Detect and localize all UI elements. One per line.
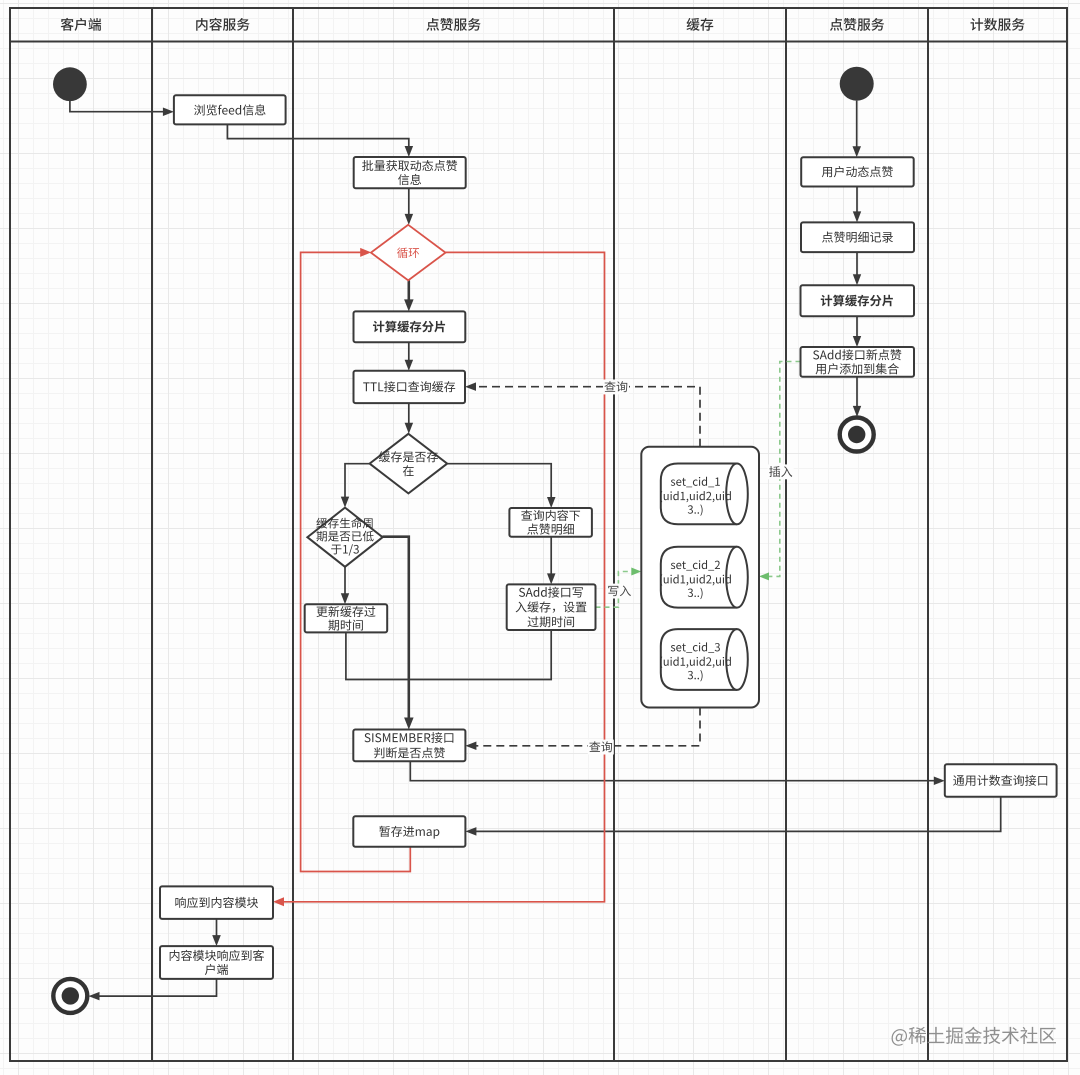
edge 响应到内容模块 to 内容模块响应到客户端 xyxy=(216,919,218,939)
start node lane1 xyxy=(53,67,87,101)
dashed edge cache container to TTL查询 xyxy=(473,387,700,447)
database cylinder set_cid_3 xyxy=(660,629,748,690)
edge 缓存是否存在 to 查询内容下点赞明细 xyxy=(447,464,551,501)
edge SAdd接口新点赞 to end2 xyxy=(856,377,858,409)
edge 缓存生命周期 to 更新缓存过期时间 xyxy=(344,567,346,597)
label 查询 (SISMEMBER) xyxy=(588,740,614,755)
lane header 点赞服务 xyxy=(426,18,480,31)
action 批量获取动态点赞信息 xyxy=(354,157,466,188)
end node lane5 xyxy=(840,418,874,452)
action SISMEMBER接口判断是否点赞 xyxy=(353,730,465,762)
lane header 内容服务 xyxy=(196,18,249,31)
label 查询 (TTL) xyxy=(603,380,629,395)
edge 查询内容下点赞明细 to SAdd接口写入缓存 xyxy=(550,537,552,577)
action 计算缓存分片2 (bold) xyxy=(801,285,915,316)
edge 更新缓存过期时间 bottom junction xyxy=(346,630,551,680)
action SAdd接口新点赞用户添加到集合 xyxy=(801,347,915,377)
database cylinder set_cid_2 xyxy=(660,547,748,608)
decision 缓存是否存在 xyxy=(370,434,448,494)
lane header 点赞服务 xyxy=(830,18,884,31)
cache container xyxy=(641,447,759,708)
action 更新缓存过期时间 xyxy=(305,604,388,632)
action 查询内容下点赞明细 xyxy=(509,508,592,537)
edge 内容模块响应到客户端 to end1 xyxy=(96,979,217,996)
edge start1 to 浏览feed信息 xyxy=(70,101,166,112)
label 写入 xyxy=(606,584,632,599)
green dashed edge SAdd新点赞 to cache 插入 xyxy=(768,362,801,577)
action 内容模块响应到客户端 xyxy=(160,946,273,979)
edge SISMEMBER to 通用计数查询接口 xyxy=(410,761,937,780)
database cylinder set_cid_1 xyxy=(660,464,748,525)
action 点赞明细记录 xyxy=(801,222,914,252)
lane header 计数服务 xyxy=(970,18,1024,31)
lane header 缓存 xyxy=(687,18,714,31)
edge 计算缓存分片 to TTL xyxy=(408,342,410,363)
action TTL接口查询缓存 xyxy=(354,371,466,403)
red arrowheads xyxy=(273,248,371,906)
decision 缓存生命周期是否已低于1/3 xyxy=(307,508,382,567)
edge start2 to 用户动态点赞 xyxy=(856,101,858,150)
dashed edge cache container to SISMEMBER查询 xyxy=(473,708,700,746)
start node lane5 xyxy=(840,67,874,101)
green dashed edge SAdd写入缓存 to cache 写入 xyxy=(596,572,633,608)
red edge 循环 to 响应到内容模块 xyxy=(281,252,605,901)
edge 批量获取 to 循环 xyxy=(408,188,410,217)
watermark @稀土掘金技术社区 xyxy=(892,1027,1056,1046)
edge 循环 to 计算缓存分片 (thick) xyxy=(407,280,410,303)
end node lane1 xyxy=(53,979,87,1013)
edge 浏览feed信息 to 批量获取 xyxy=(227,124,408,149)
action 用户动态点赞 xyxy=(801,157,914,186)
edge TTL to 缓存是否存在 xyxy=(408,403,410,426)
action 暂存进map xyxy=(353,816,465,847)
edge 计算缓存分片2 to SAdd接口新点赞 xyxy=(856,316,858,339)
action 浏览feed信息 xyxy=(174,95,286,124)
edge 用户动态点赞 to 点赞明细记录 xyxy=(856,187,858,215)
red loop edge 暂存进map back to 循环 xyxy=(301,252,411,871)
label 插入 xyxy=(768,464,794,479)
edge 通用计数查询接口 to 暂存进map xyxy=(473,797,1001,832)
edge 缓存是否存在 to 缓存生命周期 xyxy=(345,464,370,500)
action 计算缓存分片 (bold) xyxy=(354,311,466,342)
arrowheads black xyxy=(89,108,945,1001)
action 通用计数查询接口 xyxy=(945,764,1057,796)
action 响应到内容模块 xyxy=(160,886,273,919)
edge 缓存生命周期 right to SISMEMBER (thick) xyxy=(383,537,409,721)
action SAdd接口写入缓存设置过期时间 xyxy=(507,584,596,630)
decision 循环 (red) xyxy=(371,225,446,281)
lane header 客户端 xyxy=(61,18,101,31)
edge 点赞明细记录 to 计算缓存分片2 xyxy=(856,252,858,278)
